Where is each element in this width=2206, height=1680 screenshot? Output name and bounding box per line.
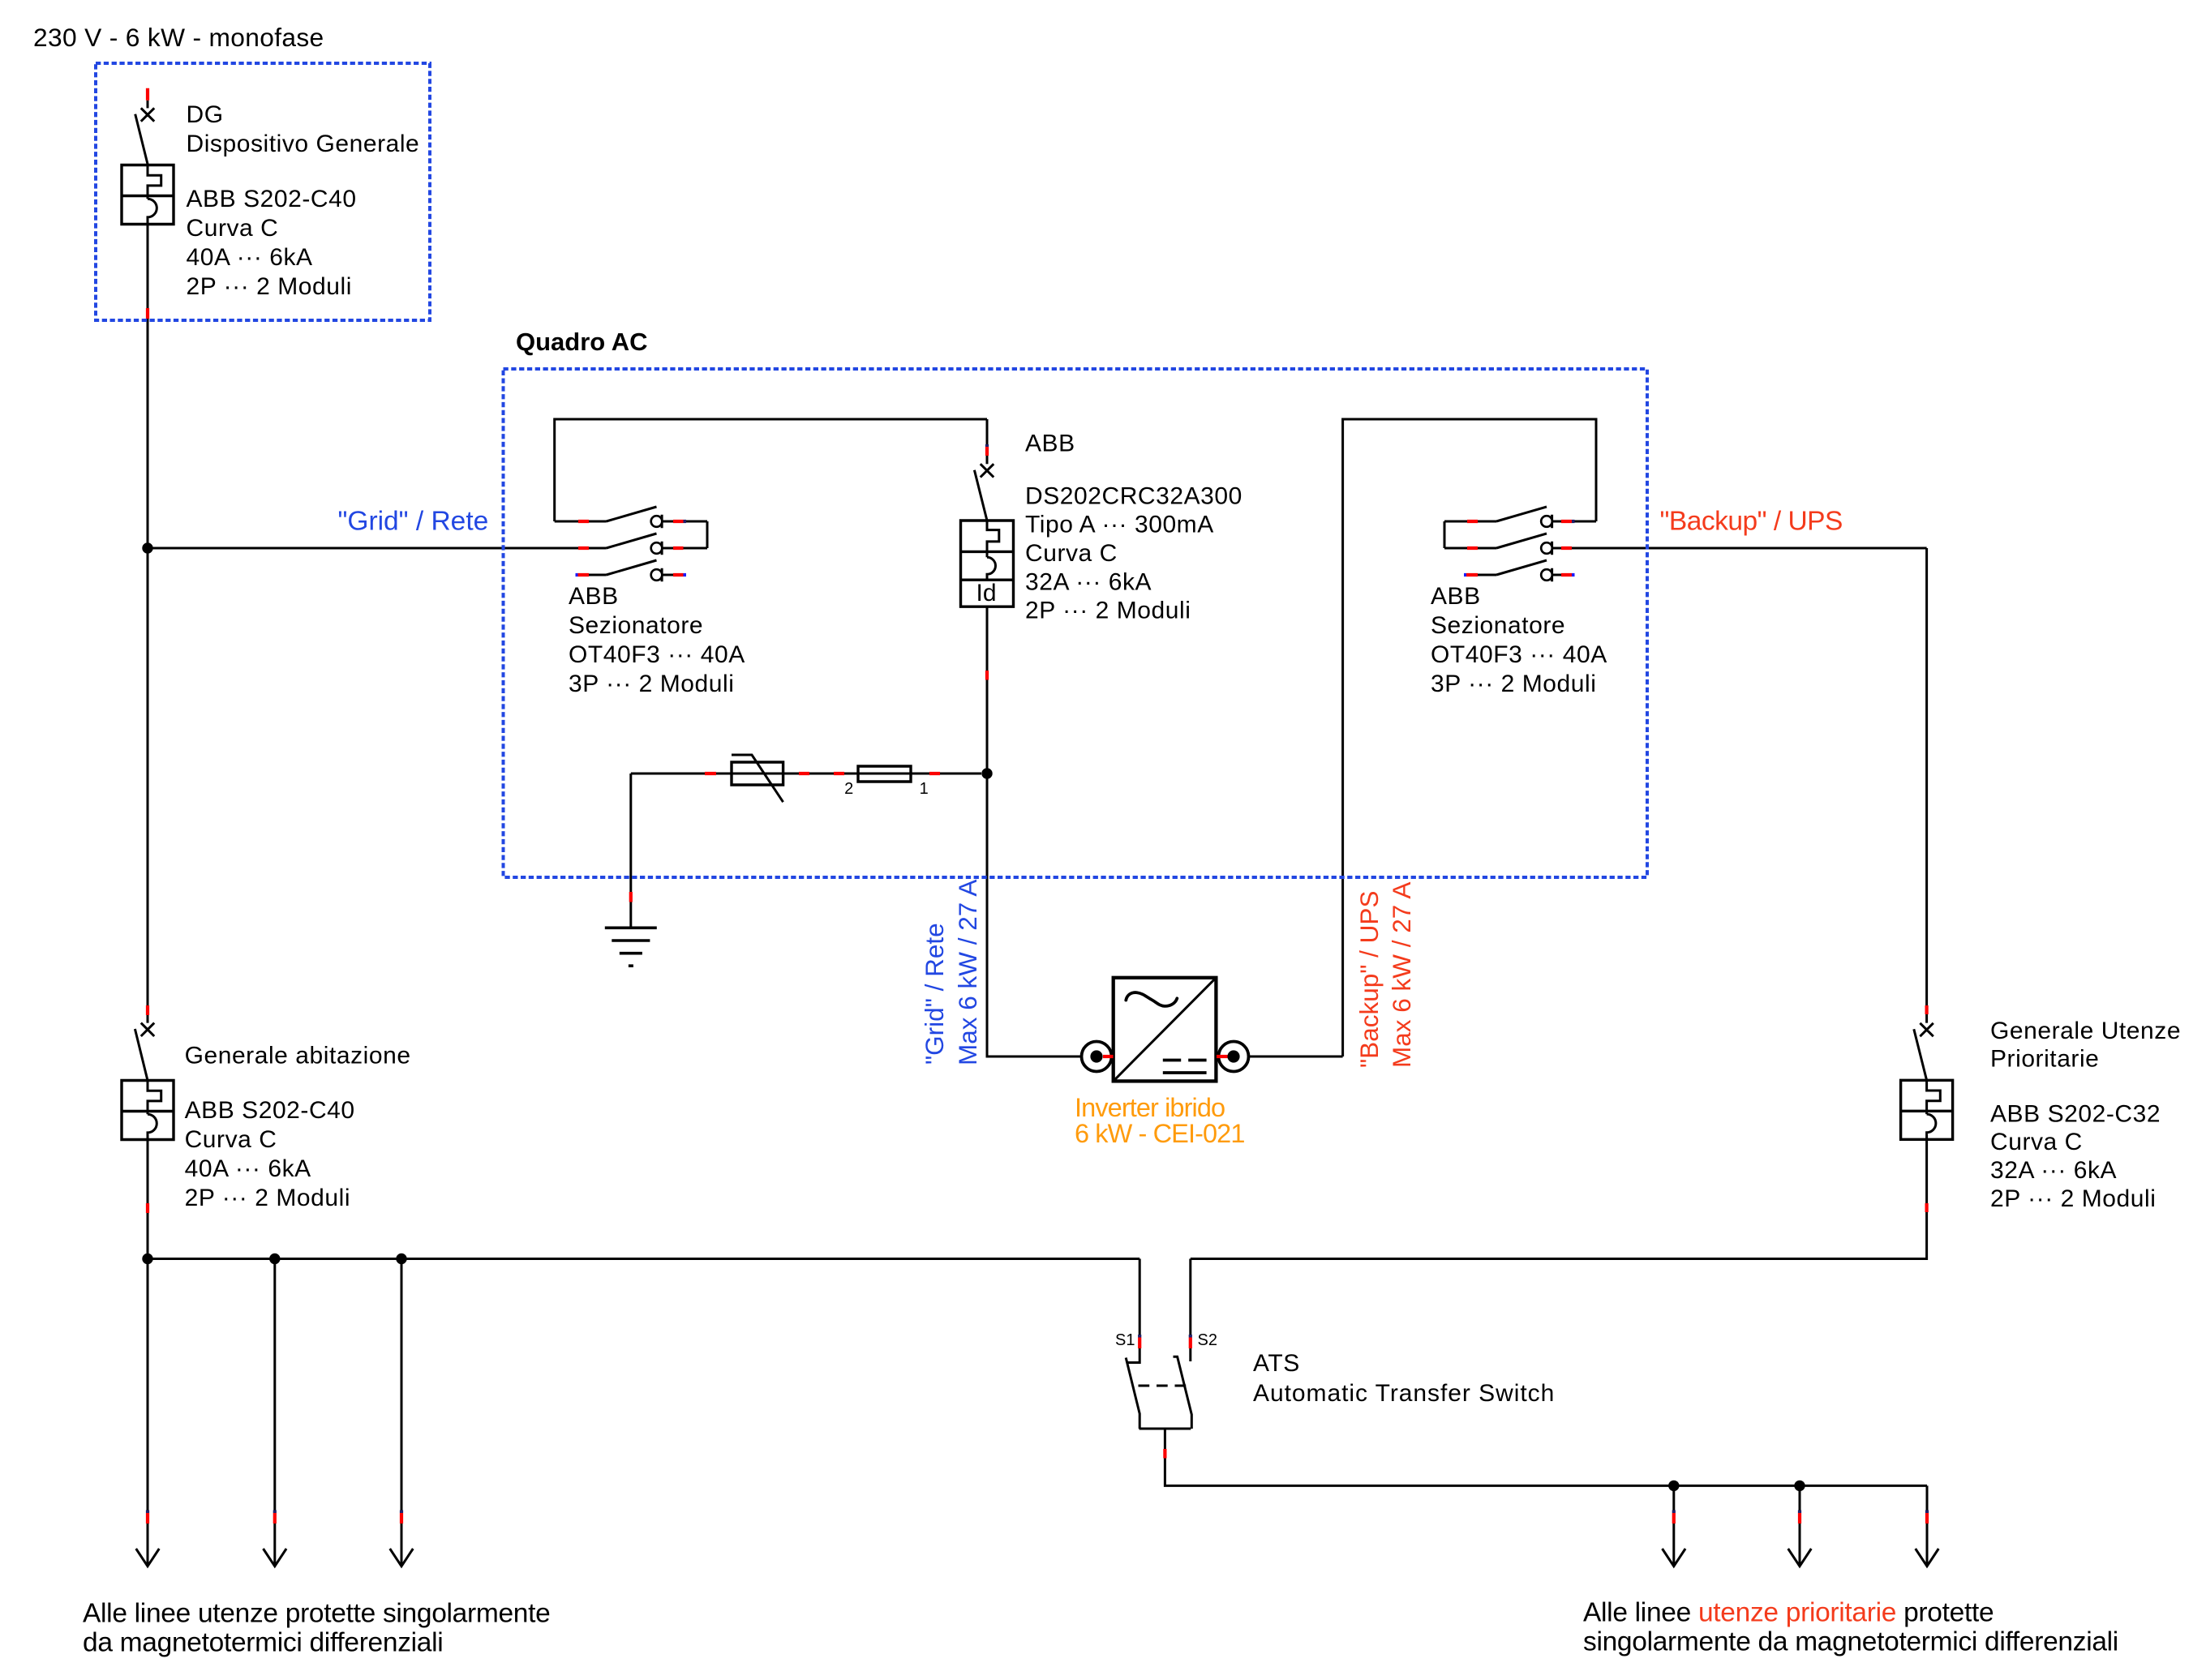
svg-text:S1: S1 xyxy=(1115,1331,1135,1349)
svg-text:ABB S202-C40: ABB S202-C40 xyxy=(187,186,357,212)
svg-text:2P ··· 2 Moduli: 2P ··· 2 Moduli xyxy=(1025,598,1191,624)
svg-text:Curva C: Curva C xyxy=(1025,540,1118,567)
svg-text:ABB: ABB xyxy=(1431,583,1481,610)
svg-text:32A ··· 6kA: 32A ··· 6kA xyxy=(1990,1157,2117,1184)
svg-text:Curva C: Curva C xyxy=(1990,1129,2083,1155)
svg-text:DS202CRC32A300: DS202CRC32A300 xyxy=(1025,482,1242,509)
svg-text:40A ··· 6kA: 40A ··· 6kA xyxy=(187,244,313,271)
svg-text:S2: S2 xyxy=(1198,1331,1217,1349)
svg-text:"Grid" / Rete: "Grid" / Rete xyxy=(920,923,949,1065)
svg-text:OT40F3 ··· 40A: OT40F3 ··· 40A xyxy=(569,641,745,668)
svg-text:ABB: ABB xyxy=(1025,431,1075,457)
svg-text:1: 1 xyxy=(920,780,929,798)
svg-text:Quadro AC: Quadro AC xyxy=(516,328,647,356)
svg-text:da magnetotermici differenzial: da magnetotermici differenziali xyxy=(83,1627,443,1657)
svg-text:3P ··· 2 Moduli: 3P ··· 2 Moduli xyxy=(569,671,734,697)
svg-text:40A ··· 6kA: 40A ··· 6kA xyxy=(185,1155,311,1182)
svg-text:Automatic Transfer Switch: Automatic Transfer Switch xyxy=(1253,1380,1555,1407)
svg-text:"Backup" / UPS: "Backup" / UPS xyxy=(1660,507,1843,537)
svg-text:Generale abitazione: Generale abitazione xyxy=(185,1043,411,1069)
svg-text:Id: Id xyxy=(976,580,996,606)
svg-text:"Backup" / UPS: "Backup" / UPS xyxy=(1354,891,1384,1068)
svg-text:OT40F3 ··· 40A: OT40F3 ··· 40A xyxy=(1431,641,1607,668)
svg-text:Max 6 kW / 27 A: Max 6 kW / 27 A xyxy=(1387,882,1416,1068)
svg-text:2: 2 xyxy=(844,780,854,798)
svg-text:Prioritarie: Prioritarie xyxy=(1990,1046,2099,1073)
svg-text:Curva C: Curva C xyxy=(185,1126,277,1153)
svg-text:2P ··· 2 Moduli: 2P ··· 2 Moduli xyxy=(187,273,352,300)
svg-text:ABB S202-C32: ABB S202-C32 xyxy=(1990,1100,2161,1127)
svg-text:Dispositivo Generale: Dispositivo Generale xyxy=(187,131,420,157)
svg-text:Alle linee utenze protette sin: Alle linee utenze protette singolarmente xyxy=(83,1598,550,1628)
svg-text:32A ··· 6kA: 32A ··· 6kA xyxy=(1025,568,1152,595)
svg-text:Tipo A ··· 300mA: Tipo A ··· 300mA xyxy=(1025,512,1214,538)
svg-text:Inverter ibrido: Inverter ibrido xyxy=(1075,1093,1225,1122)
svg-text:3P ··· 2 Moduli: 3P ··· 2 Moduli xyxy=(1431,671,1596,697)
svg-text:singolarmente da magnetotermic: singolarmente da magnetotermici differen… xyxy=(1583,1627,2118,1657)
svg-text:Curva C: Curva C xyxy=(187,215,279,242)
svg-text:"Grid" / Rete: "Grid" / Rete xyxy=(338,506,489,536)
svg-text:Generale Utenze: Generale Utenze xyxy=(1990,1018,2181,1044)
svg-text:ATS: ATS xyxy=(1253,1350,1300,1377)
svg-text:Sezionatore: Sezionatore xyxy=(569,612,703,639)
svg-text:2P ··· 2 Moduli: 2P ··· 2 Moduli xyxy=(1990,1185,2156,1212)
svg-text:DG: DG xyxy=(187,101,224,128)
svg-text:Sezionatore: Sezionatore xyxy=(1431,612,1565,639)
svg-text:230 V - 6 kW - monofase: 230 V - 6 kW - monofase xyxy=(33,23,324,52)
svg-text:2P ··· 2 Moduli: 2P ··· 2 Moduli xyxy=(185,1185,350,1211)
svg-text:Max 6 kW / 27 A: Max 6 kW / 27 A xyxy=(953,880,982,1065)
svg-text:ABB S202-C40: ABB S202-C40 xyxy=(185,1097,355,1124)
svg-text:ABB: ABB xyxy=(569,583,619,610)
svg-text:Alle linee utenze prioritarie: Alle linee utenze prioritarie protette xyxy=(1583,1597,1994,1627)
svg-text:6 kW - CEI-021: 6 kW - CEI-021 xyxy=(1075,1119,1245,1148)
